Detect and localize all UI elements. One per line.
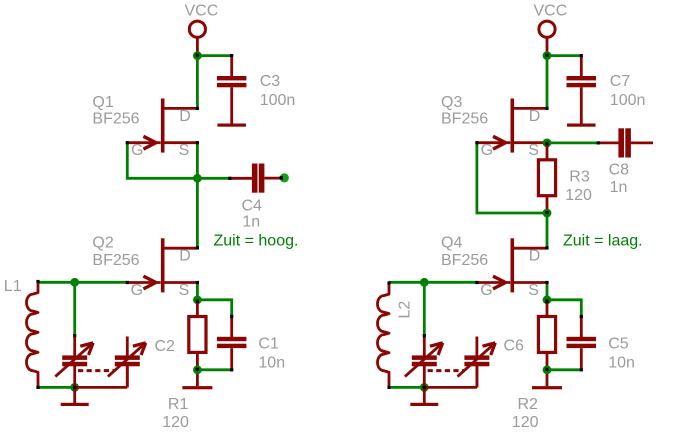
pin end Q4 drain [545,246,548,249]
power symbol VCC (right) [539,21,555,53]
capacitor C1 top lead [230,317,233,338]
wire C5 bottom to R2 node [547,368,581,371]
pin end L2 top [387,281,390,284]
pin end Q4 gate [475,281,478,284]
svg-text:S: S [528,282,539,299]
variable capacitor C2 section a [55,337,93,388]
svg-text:C5: C5 [608,336,629,353]
capacitor C8 right lead [631,141,653,144]
capacitor C7 [580,56,583,77]
pin end C5 top [580,315,583,318]
pin end L1 bottom [36,386,39,389]
capacitor C8 [598,141,619,144]
pin end C4 left [228,177,231,180]
svg-text:Q1: Q1 [92,94,113,111]
pin end Q1 drain [196,107,199,110]
svg-text:BF256: BF256 [92,111,139,128]
ground C3 bottom bar [217,124,246,127]
wire source node to C8 [547,141,597,144]
junction Q3 source node [543,139,552,148]
gang link C2 (dashed) [78,369,115,372]
resistor R1 [189,317,206,353]
wire C2 bottom bar [75,386,128,389]
resistor R1 top lead [196,300,199,317]
pin end VCC pin (left) [196,54,199,57]
svg-text:D: D [179,108,191,125]
svg-text:1n: 1n [610,179,628,196]
capacitor C3 [230,56,233,77]
wire source node to C5 branch [547,300,581,316]
pin end R3 top pin [545,142,548,145]
resistor R2 top lead [546,300,549,317]
pin end Q2 gate [126,281,129,284]
resistor R2 [538,317,555,353]
pin end Q2 drain [196,246,199,249]
pin end Q1 gate [126,141,129,144]
wire tank top wire [40,281,127,284]
capacitor C3 lower lead [230,87,233,124]
svg-text:R2: R2 [518,396,539,413]
junction VCC node (left) [193,51,202,60]
svg-text:D: D [529,248,541,265]
wire source node to C1 branch [197,300,231,316]
pin end Q1 source [196,141,199,144]
resistor R2 bottom lead [546,352,549,386]
capacitor C1 plates [217,337,247,348]
wire node A down to Q4 drain [546,213,549,247]
svg-text:C3: C3 [260,73,281,90]
pin end Q3 drain [545,107,548,110]
svg-text:C7: C7 [610,73,631,90]
pin end Q2 source [196,281,199,284]
pin end L1 top [36,280,39,283]
ground R2 ground [532,386,562,389]
capacitor C7 lower lead [580,87,583,124]
capacitor C8 plates [618,128,630,157]
junction R1-C1 node [193,365,202,374]
svg-text:G: G [481,142,493,159]
pin end C2a top [73,334,76,337]
svg-text:C1: C1 [258,336,279,353]
ground R1 ground [182,386,212,389]
capacitor C5 plates [567,337,597,348]
capacitor C1 bottom lead [230,348,233,370]
svg-text:120: 120 [512,414,539,431]
wire VCC node down to Q1 drain [196,56,199,107]
junction tank bottom node (left) [70,383,79,392]
ground lead (left tank) [73,389,76,404]
svg-text:S: S [179,142,190,159]
junction Q4 source node [543,295,552,304]
wire node to C4 [197,177,229,180]
pin end C5 bottom [580,368,583,371]
junction VCC node (right) [543,51,552,60]
svg-text:G: G [131,142,143,159]
junction tank bottom node (right) [420,383,429,392]
junction Q2 source node [193,295,202,304]
junction R2-C5 node [543,365,552,374]
svg-text:BF256: BF256 [441,111,488,128]
capacitor C4 [230,177,253,180]
capacitor C3 plates [217,76,247,87]
svg-text:100n: 100n [610,92,646,109]
svg-text:C4: C4 [242,198,263,215]
ground lead (right tank) [423,389,426,404]
pin end VCC pin (right) [545,54,548,57]
junction tank top node (left) [70,278,79,287]
wire VCC node to C7 branch [547,54,580,57]
pin end Q4 source [545,281,548,284]
svg-text:R3: R3 [569,169,590,186]
pin end Q3 gate [475,141,478,144]
power symbol VCC (left) [189,21,205,53]
svg-text:BF256: BF256 [92,252,139,269]
svg-text:D: D [529,108,541,125]
wire Q1 source down to node [196,143,199,179]
wire node down to Q2 drain [196,178,199,246]
pin end C1 bottom [230,368,233,371]
svg-text:Zuit = hoog.: Zuit = hoog. [214,233,299,250]
capacitor C5 top lead [580,317,583,338]
svg-text:BF256: BF256 [441,252,488,269]
wire VCC node to C3 branch [197,54,230,57]
ground right tank ground [410,403,438,406]
svg-text:S: S [179,282,190,299]
pin end tank bottom pin [73,386,76,389]
wire L2 bottom wire [391,386,421,389]
transistor Q3 [477,99,547,153]
junction node A (gate/R3) [543,209,552,218]
svg-text:Q2: Q2 [92,234,113,251]
transistor Q4 [477,238,547,292]
pin end C3 top [230,54,233,57]
svg-text:L1: L1 [4,278,22,295]
capacitor C4 plates [252,164,265,193]
svg-text:1n: 1n [242,214,260,231]
svg-text:C2: C2 [155,338,176,355]
wire C1 bottom to R1 node [197,368,231,371]
pin end C1 top [230,315,233,318]
wire tank top wire (right) [391,281,476,284]
junction tank top node (right) [420,278,429,287]
svg-text:R1: R1 [168,396,189,413]
wire Q2 source down [196,283,199,297]
pin end C6a top [423,334,426,337]
gang link C6 (dashed) [428,369,465,372]
pin end R1 top pin [196,300,199,303]
ground left tank ground [61,403,89,406]
svg-text:C8: C8 [609,162,630,179]
pin end tank bottom pin (right) [423,386,426,389]
inductor L1 [26,281,38,387]
svg-text:10n: 10n [608,355,635,372]
junction Q1 source node [193,174,202,183]
resistor R1 bottom lead [196,352,199,386]
wire Q3 gate loop down [477,143,543,213]
svg-text:VCC: VCC [185,3,219,20]
svg-text:G: G [480,282,492,299]
svg-text:D: D [179,248,191,265]
capacitor C5 bottom lead [580,348,583,370]
capacitor C4 right lead [264,177,281,180]
pin end R2 top pin [545,300,548,303]
svg-text:C6: C6 [504,338,525,355]
resistor R3 bottom lead [546,196,549,213]
wire tank node down to C2 [73,282,76,334]
pin end L2 bottom [387,386,390,389]
svg-text:100n: 100n [260,92,296,109]
transistor Q1 [127,99,197,153]
pin end R3 bottom pin [545,211,548,214]
transistor Q2 [127,238,197,292]
svg-text:VCC: VCC [534,3,568,20]
ground C7 bottom bar [567,124,596,127]
capacitor C7 plates [567,76,597,87]
svg-text:Q4: Q4 [441,234,462,251]
resistor R3 top lead [546,143,549,161]
wire Q1 gate loop down [127,143,193,179]
variable capacitor C6 section b [458,337,496,388]
svg-text:120: 120 [162,414,189,431]
svg-text:10n: 10n [258,355,285,372]
wire VCC node down to Q3 drain [546,56,549,107]
svg-text:120: 120 [565,187,592,204]
pin end C8 left [597,141,600,144]
pin end C4 output [280,176,283,179]
pin end C7 top [580,54,583,57]
svg-text:Zuit = laag.: Zuit = laag. [563,233,643,250]
pin end R1 bottom pin [196,368,199,371]
variable capacitor C2 section b [108,337,146,388]
pin end R2 bottom pin [545,368,548,371]
variable capacitor C6 section a [405,337,443,388]
inductor L2 [377,283,389,388]
svg-text:G: G [131,282,143,299]
svg-text:S: S [528,142,539,159]
svg-text:L2: L2 [397,301,414,319]
resistor R3 [538,160,555,196]
wire C6 bottom bar [424,386,477,389]
wire Q4 source down [546,283,549,297]
terminal output pad (left) [280,173,289,182]
wire tank node down to C6 [423,282,426,334]
wire L1 bottom wire [40,386,71,389]
svg-text:Q3: Q3 [441,94,462,111]
